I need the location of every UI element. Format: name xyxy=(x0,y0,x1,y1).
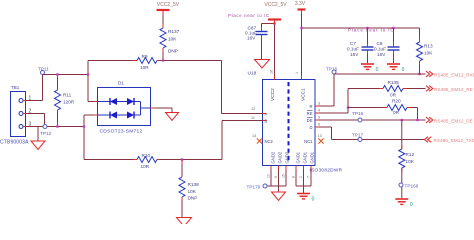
svg-text:10R: 10R xyxy=(141,164,150,169)
svg-text:15: 15 xyxy=(282,174,286,178)
svg-text:RS485_EM12_RE: RS485_EM12_RE xyxy=(434,87,473,92)
svg-text:R13: R13 xyxy=(424,44,433,49)
svg-text:GND2: GND2 xyxy=(284,151,289,163)
svg-text:16: 16 xyxy=(270,70,274,74)
svg-text:R12: R12 xyxy=(406,152,415,157)
svg-text:VCC2: VCC2 xyxy=(270,88,276,101)
svg-text:R137: R137 xyxy=(168,29,180,34)
svg-text:ISO3082DWR: ISO3082DWR xyxy=(310,167,343,173)
svg-text:0.1uF: 0.1uF xyxy=(347,47,359,52)
svg-text:R9: R9 xyxy=(142,54,148,59)
svg-text:120R: 120R xyxy=(63,100,75,105)
svg-text:RS485_EM12_RXD: RS485_EM12_RXD xyxy=(434,72,474,77)
svg-text:CTB90003A: CTB90003A xyxy=(0,140,29,146)
svg-text:10K: 10K xyxy=(168,37,177,42)
svg-text:TB1: TB1 xyxy=(11,85,20,90)
svg-text:10K: 10K xyxy=(188,189,197,194)
svg-text:14: 14 xyxy=(252,134,256,138)
svg-text:VCC1: VCC1 xyxy=(301,88,307,101)
svg-text:10R: 10R xyxy=(140,65,149,70)
svg-text:0: 0 xyxy=(312,197,315,203)
svg-text:16V: 16V xyxy=(377,52,386,57)
svg-text:16V: 16V xyxy=(247,36,256,41)
svg-text:D1: D1 xyxy=(118,81,124,86)
svg-text:0R: 0R xyxy=(393,110,400,115)
svg-text:3: 3 xyxy=(318,102,320,106)
svg-text:DNP: DNP xyxy=(188,196,198,201)
svg-text:TP179: TP179 xyxy=(247,185,261,190)
svg-text:R: R xyxy=(309,104,312,109)
svg-text:10: 10 xyxy=(267,174,271,178)
svg-text:3.3V: 3.3V xyxy=(295,1,306,7)
svg-text:Place near to IC: Place near to IC xyxy=(228,13,270,18)
svg-text:10K: 10K xyxy=(424,51,433,56)
svg-text:CDSOT23-SM712: CDSOT23-SM712 xyxy=(100,129,143,135)
svg-text:GND1: GND1 xyxy=(302,151,307,163)
svg-text:0: 0 xyxy=(410,202,413,208)
svg-text:C8: C8 xyxy=(377,41,383,46)
svg-text:RS485_EM12_DE: RS485_EM12_DE xyxy=(434,118,473,123)
svg-text:GND1: GND1 xyxy=(309,151,314,163)
svg-text:NC2: NC2 xyxy=(265,139,274,144)
svg-text:RS485_EM12_TXD: RS485_EM12_TXD xyxy=(434,138,474,143)
svg-text:GND2: GND2 xyxy=(270,151,275,163)
svg-text:10K: 10K xyxy=(406,159,415,164)
svg-text:VCC2_5V: VCC2_5V xyxy=(157,2,180,8)
svg-text:0: 0 xyxy=(376,67,379,73)
svg-text:Place near to IC: Place near to IC xyxy=(348,28,395,33)
svg-text:16V: 16V xyxy=(350,52,359,57)
svg-text:1: 1 xyxy=(295,72,299,74)
svg-text:0.1uF: 0.1uF xyxy=(374,47,386,52)
svg-text:VCC2_5V: VCC2_5V xyxy=(264,2,287,8)
svg-text:TP166: TP166 xyxy=(405,184,419,189)
svg-text:0R: 0R xyxy=(390,93,397,98)
svg-text:12: 12 xyxy=(251,107,255,111)
svg-text:U18: U18 xyxy=(248,71,257,77)
svg-text:D: D xyxy=(309,125,312,130)
svg-text:7: 7 xyxy=(307,176,311,178)
svg-text:TP17: TP17 xyxy=(352,133,364,138)
svg-text:GND2: GND2 xyxy=(277,151,282,163)
svg-text:TP12: TP12 xyxy=(40,131,52,136)
svg-text:11: 11 xyxy=(251,116,255,120)
svg-text:NC1: NC1 xyxy=(304,139,313,144)
svg-text:TP16: TP16 xyxy=(352,111,364,116)
svg-text:GND1: GND1 xyxy=(295,151,300,163)
svg-text:13: 13 xyxy=(318,134,322,138)
svg-text:TP11: TP11 xyxy=(38,67,49,72)
svg-text:DE: DE xyxy=(307,118,313,123)
svg-text:6: 6 xyxy=(318,123,320,127)
svg-text:4: 4 xyxy=(318,109,320,113)
svg-text:0: 0 xyxy=(402,67,405,73)
svg-text:TP15: TP15 xyxy=(326,67,338,72)
svg-text:R11: R11 xyxy=(63,93,72,98)
svg-text:R135: R135 xyxy=(388,80,400,85)
svg-text:R10: R10 xyxy=(142,153,151,158)
svg-text:2: 2 xyxy=(299,176,303,178)
svg-text:9: 9 xyxy=(274,176,278,178)
svg-text:R20: R20 xyxy=(392,99,401,104)
svg-text:8: 8 xyxy=(292,176,296,178)
svg-text:C7: C7 xyxy=(350,41,356,46)
svg-text:DNP: DNP xyxy=(168,49,178,54)
svg-text:R138: R138 xyxy=(188,182,200,187)
svg-text:5: 5 xyxy=(318,116,320,120)
svg-text:RE: RE xyxy=(307,111,313,116)
